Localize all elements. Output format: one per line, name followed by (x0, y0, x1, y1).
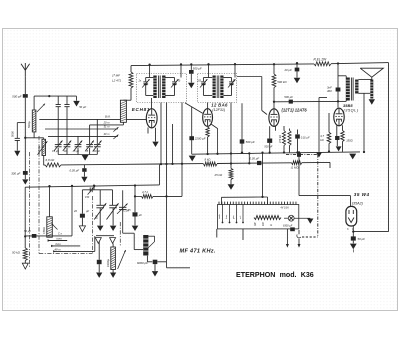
chassis arrow b (110, 238, 116, 244)
capacitor 50uF (inline) (32, 234, 37, 238)
ground (bus right) (349, 154, 356, 160)
wire coil node (25, 137, 43, 139)
capacitor 5000pF (antenna shunt) (15, 137, 20, 139)
svg-text:6000 pF: 6000 pF (137, 261, 148, 265)
ground (voice coil) (369, 99, 375, 104)
wire 12AT6 heater drop (262, 153, 264, 197)
winding T2 secondary (220, 76, 223, 99)
wire antenna left stub (17, 122, 25, 124)
svg-text:ETERPHON mod. K36: ETERPHON mod. K36 (236, 271, 314, 279)
svg-text:100: 100 (197, 80, 202, 82)
ground (osc cap) (132, 226, 139, 231)
svg-text:500 µF: 500 µF (246, 140, 255, 144)
svg-text:(12F31): (12F31) (212, 108, 226, 112)
svg-text:3: 3 (347, 228, 349, 231)
svg-text:(35A2): (35A2) (352, 201, 364, 205)
svg-text:3W: 3W (255, 222, 257, 226)
wire band line 49m (48, 135, 118, 137)
svg-text:50: 50 (178, 81, 181, 83)
ground (ECH81 cathode) (152, 142, 158, 147)
resistor 470kOhm (283, 126, 285, 131)
winding T1 secondary (162, 76, 165, 99)
trimmer T1 primary (146, 77, 154, 79)
coil L5 oscillator (143, 235, 148, 256)
wire secondary bottom (359, 92, 372, 94)
ground (gang 1) (97, 226, 104, 231)
trimmer T2 primary (204, 77, 213, 79)
capacitor 500pF (antenna series) (23, 94, 28, 98)
core T1 (158, 76, 160, 99)
ground (L4) (112, 270, 114, 273)
svg-text:L2 471: L2 471 (112, 78, 122, 82)
ground 50uF node (76, 96, 78, 101)
wire L5 top bracket (148, 235, 154, 237)
capacitor 12AT6 cathode (269, 126, 271, 138)
wire ECH81 cathode pins (147, 128, 149, 134)
wire rectifier output (352, 226, 354, 238)
svg-text:50 µF: 50 µF (24, 229, 31, 233)
wire heater stub (318, 98, 320, 152)
wire band line B.M. (39, 118, 120, 120)
svg-text:4,7: 4,7 (320, 134, 324, 138)
capacitor 20uF to ground (81, 190, 83, 214)
capacitor 500pF coupling (inline) (289, 100, 293, 104)
capacitor 0.05uF to ground (83, 165, 85, 169)
wire heater to rectifier (298, 152, 300, 195)
capacitor 50uF osc (98, 241, 100, 259)
coil L3 oscillator grid (120, 100, 126, 122)
wire B+ rail right segment (331, 63, 389, 64)
wire AF bus line (61, 164, 204, 165)
svg-text:1ª MF: 1ª MF (112, 74, 120, 78)
wire volume feed (49, 186, 51, 217)
svg-text:R.EL 2W: R.EL 2W (314, 58, 328, 62)
svg-text:tono: tono (57, 236, 63, 240)
wire B+ drop to T1 primary (149, 65, 151, 78)
ground (20uF bypass) (294, 78, 301, 83)
wire B+ drop to T2 primary (208, 64, 210, 77)
wire cap bracket (34, 95, 76, 97)
svg-text:MF 471 KHz.: MF 471 KHz. (180, 249, 216, 255)
svg-text:C n: C n (58, 231, 63, 235)
svg-text:radio: radio (219, 213, 221, 219)
wire B+ top rail (131, 64, 314, 66)
capacitor (RF bypass a) (57, 96, 59, 104)
wire feeds into switch bank (221, 197, 223, 204)
capacitor 0.05uF osc (134, 186, 136, 213)
wire coupling to output grid (274, 100, 338, 102)
wire output transformer primary bottom (338, 100, 346, 102)
resistor 22kOhm screen (130, 66, 132, 72)
svg-text:m.f.: m.f. (240, 215, 242, 219)
svg-text:0,05 µF: 0,05 µF (250, 156, 260, 160)
resistor heater dropper (inline) (254, 216, 281, 220)
gang link (dash-dot) (119, 222, 121, 247)
svg-text:500 µF: 500 µF (284, 95, 293, 99)
svg-text:12 BA6: 12 BA6 (211, 102, 228, 107)
capacitor 0.05uF (inline) (257, 161, 261, 165)
capacitor (RF bypass b) (66, 96, 68, 104)
wire AVC down leg (24, 187, 26, 248)
svg-text:500 pF: 500 pF (12, 94, 22, 98)
capacitor 300uF (23, 171, 28, 175)
trimmer T1 secondary (165, 77, 175, 79)
svg-text:0,01 µF: 0,01 µF (301, 135, 310, 139)
resistor 12BA6 cathode (206, 127, 209, 137)
svg-text:300 µF: 300 µF (11, 172, 20, 176)
svg-text:B.M.: B.M. (105, 114, 111, 118)
svg-text:100 µF: 100 µF (92, 150, 100, 153)
switch bank contacts (comb) (218, 202, 220, 205)
svg-text:400: 400 (327, 89, 332, 93)
svg-text:500 pF: 500 pF (264, 145, 272, 149)
svg-text:2n: 2n (138, 81, 142, 83)
wire lead b (166, 103, 168, 262)
wire antenna lead (24, 76, 26, 94)
core T2 (216, 76, 218, 99)
trimmer oscillator padder (122, 190, 124, 233)
svg-text:fono: fono (56, 242, 62, 246)
svg-text:50: 50 (233, 80, 236, 82)
wire to switch bank (166, 262, 168, 268)
trimmer (bracket) (89, 187, 91, 192)
svg-text:6300 µF: 6300 µF (283, 225, 293, 228)
capacitor 3nF tone (337, 64, 339, 88)
capacitor 50uF rail bypass (190, 64, 192, 70)
ground (diode load) (230, 180, 232, 185)
wire to output transformer primary top (338, 75, 346, 77)
wire 12BA6 heater hook (211, 124, 218, 154)
svg-text:500 µF: 500 µF (193, 66, 202, 70)
svg-text:160: 160 (263, 221, 265, 226)
svg-text:25 kΩ: 25 kΩ (214, 173, 223, 177)
capacitor 20uF rail bypass (296, 63, 298, 68)
wire band line 20m (90, 124, 124, 126)
winding T1 primary (153, 76, 156, 99)
ground (antenna shunt) (14, 151, 20, 157)
wire secondary top to speaker (359, 79, 372, 81)
svg-text:µF: µF (139, 213, 142, 217)
shield (dash-dot) bottom (39, 253, 93, 255)
ground (filter) (350, 244, 357, 250)
capacitor 500pF detector (241, 103, 243, 152)
wire bus link (248, 153, 250, 163)
wire trimmer common (57, 148, 59, 155)
capacitor 50uF filter (351, 236, 356, 240)
svg-text:25: 25 (84, 150, 88, 153)
svg-text:5000: 5000 (11, 131, 15, 137)
svg-text:31 m: 31 m (104, 125, 111, 129)
trimmer T2 secondary (224, 77, 232, 79)
wire T1 primary to ECH81 plate (151, 98, 153, 109)
ground (trimmer common) (82, 155, 89, 161)
svg-text:(12T1) 12AT6: (12T1) 12AT6 (282, 107, 308, 112)
trimmer C5 (94, 144, 101, 146)
wire B+ drop to T2 secondary side (234, 64, 236, 77)
ground (gang 2) (110, 226, 117, 231)
chassis arrow a (95, 238, 101, 244)
svg-text:20: 20 (73, 209, 77, 213)
wire ground bus (192, 152, 360, 154)
dial lamp (288, 215, 294, 221)
svg-text:49 m: 49 m (104, 132, 111, 136)
svg-text:2200 µF: 2200 µF (194, 137, 206, 141)
resistor 47kOhm (289, 129, 291, 131)
transformer T3 output primary (346, 78, 350, 101)
svg-text:470 kΩ: 470 kΩ (279, 135, 282, 143)
wire switch bank bottom left (216, 229, 218, 238)
svg-text:500: 500 (96, 214, 99, 219)
wire switch bank bottom mid (242, 229, 244, 240)
svg-text:4V 0,3A: 4V 0,3A (281, 207, 290, 210)
wire band line 31m (45, 128, 118, 130)
wire lead a (160, 103, 162, 165)
ground (bus left) (189, 156, 196, 162)
svg-text:4,7 k: 4,7 k (142, 190, 149, 194)
capacitor 35B5 cathode bypass (336, 126, 338, 137)
variable capacitor gang 1 (99, 190, 101, 205)
variable capacitor gang 2 (112, 190, 114, 205)
resistor R.EL 2W (inline on B+ rail) (314, 62, 331, 66)
mains switch (298, 230, 300, 234)
resistor 1MOhm (inline) (292, 161, 302, 165)
svg-text:50 µF: 50 µF (358, 237, 366, 241)
trimmer C3 (75, 144, 82, 146)
svg-text:50000µ: 50000µ (38, 145, 41, 154)
shield stub (dash-dot) (28, 152, 30, 268)
svg-text:10000µ: 10000µ (107, 258, 110, 267)
trimmer C1 (55, 144, 62, 146)
switch bank box (218, 205, 299, 229)
svg-text:C,06: C,06 (123, 209, 129, 213)
svg-text:150: 150 (85, 196, 90, 199)
resistor 50kOhm (23, 248, 27, 261)
voice coil (370, 80, 373, 99)
wire trimmer feeds (77, 136, 79, 144)
svg-text:6,8 kΩ: 6,8 kΩ (46, 158, 56, 162)
switch bank inner leads (222, 205, 224, 223)
shield (dash-dot) right (92, 196, 94, 254)
speaker LS (360, 68, 383, 77)
svg-text:20 m: 20 m (103, 121, 111, 125)
ground (300uF) (22, 179, 28, 184)
wire tone return (94, 236, 96, 251)
winding T2 primary (213, 76, 216, 99)
ground (dial lamp) (307, 219, 313, 224)
IF transformer T1 (dashed box) (137, 74, 187, 103)
svg-text:µF: µF (86, 209, 89, 213)
trimmer C4 (86, 144, 93, 146)
ground (osc cap 2) (96, 273, 102, 278)
svg-text:500 kΩ: 500 kΩ (277, 80, 287, 84)
ground (heater stub) (316, 153, 322, 158)
svg-text:49 m: 49 m (55, 247, 62, 251)
wire AVC line (25, 185, 159, 187)
svg-text:10: 10 (64, 150, 67, 153)
resistor 500kOhm 12AT6 plate (273, 64, 275, 74)
svg-text:20 µF: 20 µF (284, 68, 292, 72)
svg-text:fono: fono (226, 214, 228, 219)
capacitor 500uF AF bypass (297, 130, 299, 135)
ground (6000pF) (152, 271, 158, 276)
svg-text:giro: giro (233, 215, 235, 219)
svg-text:(35QL): (35QL) (344, 108, 359, 113)
wire pot bottom (25, 235, 72, 237)
svg-text:0,05 µF: 0,05 µF (70, 168, 80, 172)
wire T2 primary to 12BA6 plate (207, 103, 209, 110)
wire grid lead ECH81 (126, 118, 146, 120)
chassis arrow (50k) (22, 263, 28, 269)
resistor 150 Ohm cathode (342, 125, 344, 130)
wire lead c (172, 124, 174, 164)
svg-text:50 µF: 50 µF (79, 105, 86, 109)
ground (rail bypass) (188, 83, 195, 88)
svg-text:(1 MΩ): (1 MΩ) (291, 166, 300, 170)
trimmer C2 (64, 144, 71, 146)
svg-text:50 kΩ: 50 kΩ (12, 250, 21, 254)
shield (dash-dot) left (38, 136, 40, 254)
wire gang bracket (82, 189, 112, 191)
wire padder stair (123, 232, 135, 234)
wire gang ground link (96, 235, 114, 237)
wire antenna to coil node (24, 98, 26, 180)
wire return drop (71, 186, 73, 236)
svg-text:Ω: Ω (271, 224, 273, 226)
svg-text:kΩ: kΩ (320, 138, 323, 142)
wire B+ drop to T1 secondary side (180, 64, 182, 77)
mains plug (286, 229, 288, 244)
wire osc line to cap node (135, 195, 142, 197)
resistor 100kOhm diode load (230, 103, 232, 169)
svg-text:5000µ: 5000µ (28, 121, 31, 128)
ground (cathode bypass) (336, 146, 342, 151)
wire detector feed from T2 (237, 76, 262, 78)
svg-text:0,5MΩ: 0,5MΩ (44, 227, 46, 234)
wire B+ to rectifier cathode (353, 231, 388, 233)
wire secondary return to ground bus (363, 93, 365, 152)
svg-text:150Ω: 150Ω (346, 138, 353, 142)
wire 12AT6 pin stub (275, 126, 277, 131)
transformer T3 secondary (355, 80, 358, 94)
capacitor 2200pF screen bypass (191, 107, 193, 154)
wire mechanical link (dash-dot) (286, 153, 318, 155)
wire to oscillator grid coil (123, 99, 131, 101)
svg-text:35 W4: 35 W4 (354, 192, 370, 197)
wire T1 secondary to 12BA6 grid (diagonal) (185, 103, 203, 113)
antenna (24, 70, 26, 76)
wire B+ right vertical rail (388, 63, 390, 232)
core T3 (350, 78, 352, 101)
IF transformer T2 (dashed box) (198, 74, 237, 103)
wire lead d (181, 103, 183, 197)
